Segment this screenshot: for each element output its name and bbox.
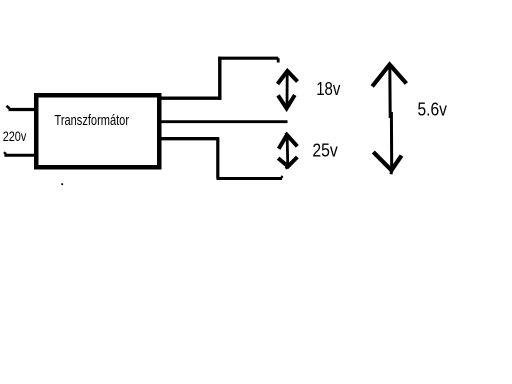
- svg-text:5.6v: 5.6v: [418, 100, 447, 120]
- svg-text:25v: 25v: [312, 141, 337, 161]
- arrow A2 (25v) double-headed: [278, 133, 297, 169]
- wire: output bottom vertical drop: [216, 137, 219, 178]
- transformer box T1: [36, 95, 159, 167]
- svg-text:220v: 220v: [3, 128, 27, 144]
- wire: output top horizontal from box: [159, 96, 222, 99]
- svg-text:18v: 18v: [316, 79, 340, 99]
- wire: output bottom horizontal from box: [159, 137, 219, 140]
- arrow A3 (5.6v) double-headed: [372, 65, 406, 175]
- wire: hook at end of upper horizontal: [277, 58, 280, 62]
- arrow A1 (18v) double-headed: [278, 71, 298, 108]
- wire: output top upper horizontal: [218, 57, 278, 60]
- wire: nub at end of lower horizontal: [280, 176, 283, 178]
- wire: input bottom (220v line 2): [4, 152, 36, 155]
- wire: output top vertical riser: [218, 57, 221, 100]
- svg-text:Transzformátor: Transzformátor: [55, 112, 130, 129]
- wire: input top (220v line 1): [7, 106, 37, 110]
- wire: output middle: [159, 120, 288, 123]
- stray dot: [61, 183, 63, 185]
- wire: output bottom lower horizontal: [217, 177, 283, 180]
